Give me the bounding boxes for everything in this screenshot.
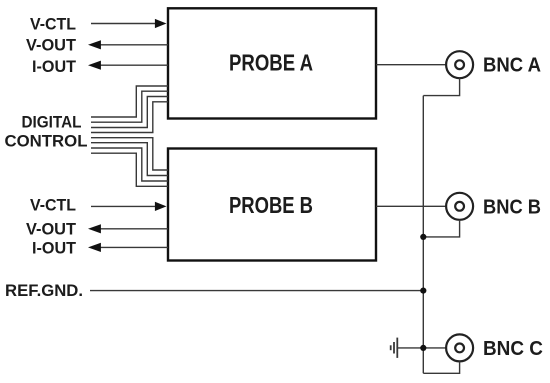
wire REF.GND. net to ground bus <box>90 290 423 292</box>
svg-text:PROBE B: PROBE B <box>229 192 313 218</box>
svg-text:REF.GND.: REF.GND. <box>5 281 83 300</box>
svg-text:BNC B: BNC B <box>483 196 541 219</box>
wire BNC B shield to ground bus <box>423 220 459 237</box>
svg-text:I-OUT: I-OUT <box>32 238 77 257</box>
svg-text:CONTROL: CONTROL <box>5 131 88 150</box>
wire V-OUT output arrow from probe B <box>88 224 168 233</box>
svg-text:V-CTL: V-CTL <box>30 14 76 33</box>
svg-text:V-OUT: V-OUT <box>26 35 77 54</box>
wire V-OUT output arrow from probe A <box>88 40 168 49</box>
probe B block U2 <box>168 149 376 261</box>
wire I-OUT output arrow from probe A <box>88 61 168 70</box>
wire digital control bit 4 to probe B <box>91 138 168 170</box>
wire digital control bit 3 to probe A <box>91 102 168 133</box>
wire probe A output to BNC A <box>376 64 446 66</box>
wire digital control bit 0 to probe A <box>91 86 168 117</box>
svg-text:PROBE A: PROBE A <box>229 50 313 76</box>
wire ground bus vertical <box>422 96 424 374</box>
wire digital control bit 5 to probe B <box>91 143 168 176</box>
svg-text:V-OUT: V-OUT <box>26 219 77 238</box>
junction REF.GND. / bus <box>420 288 426 294</box>
wire BNC A shield to ground bus <box>423 78 459 95</box>
wire ground symbol to BNC C <box>398 347 446 349</box>
svg-text:DIGITAL: DIGITAL <box>22 113 82 132</box>
wire BNC C shield to ground bus <box>423 361 459 373</box>
BNC connector J2 BNC B <box>446 193 473 220</box>
wire I-OUT output arrow from probe B <box>88 243 168 252</box>
wire digital control bit 1 to probe A <box>91 91 168 122</box>
wire digital control bit 6 to probe B <box>91 148 168 181</box>
svg-text:V-CTL: V-CTL <box>30 195 76 214</box>
probe A block U1 <box>168 8 376 118</box>
ground symbol earth <box>391 338 398 358</box>
junction BNC B shield / bus <box>420 234 426 240</box>
svg-text:I-OUT: I-OUT <box>32 57 77 76</box>
wire V-CTL input arrow to probe B <box>91 202 167 211</box>
wire probe B output to BNC B <box>376 205 446 207</box>
wire digital control bit 7 to probe B <box>91 153 168 186</box>
BNC connector J1 BNC A <box>446 51 473 78</box>
wire digital control bit 2 to probe A <box>91 97 168 128</box>
svg-text:BNC A: BNC A <box>483 54 541 77</box>
wire V-CTL input arrow to probe A <box>91 19 167 28</box>
BNC connector J3 BNC C <box>446 334 473 361</box>
svg-text:BNC C: BNC C <box>483 337 543 360</box>
junction ground wire / bus <box>420 345 426 351</box>
